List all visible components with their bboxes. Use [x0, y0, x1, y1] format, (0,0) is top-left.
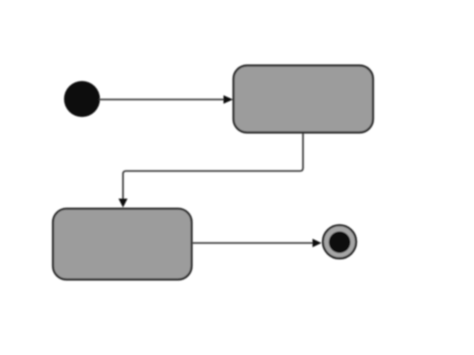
initial state (black circle) [64, 81, 100, 117]
state S1 (top rounded rectangle) [234, 66, 374, 133]
wire initial -> State1 [99, 99, 225, 101]
final state inner dot [329, 231, 351, 253]
arrowhead into State1 [224, 95, 234, 104]
arrowhead into S2 [119, 199, 128, 208]
wire S2 -> final [192, 242, 314, 244]
state S2 (bottom rounded rectangle) [53, 209, 192, 280]
arrowhead into final state [313, 239, 322, 247]
final state (double circle) [323, 225, 356, 258]
wire elbow S1 -> S2 [123, 134, 303, 200]
